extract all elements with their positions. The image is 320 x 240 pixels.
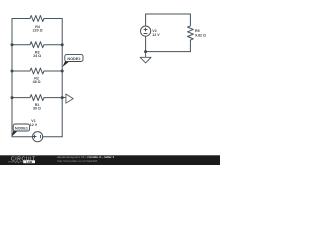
- node flag NODE2: [62, 54, 83, 67]
- svg-text:48 Ω: 48 Ω: [33, 80, 41, 84]
- wire V2 top lead: [145, 14, 147, 26]
- svg-text:12 V: 12 V: [152, 33, 160, 37]
- wire top right circuit: [146, 13, 191, 15]
- svg-text:http://circuitlab.com/c/3a9426: http://circuitlab.com/c/3a9426: [57, 159, 98, 163]
- ground: [140, 52, 151, 63]
- CircuitLab logo: [8, 157, 36, 164]
- label R4: [33, 25, 43, 33]
- resistor R5: [188, 14, 194, 52]
- wire bottom right: [43, 136, 63, 138]
- svg-text:LAB: LAB: [26, 160, 32, 164]
- svg-text:R5: R5: [195, 29, 200, 33]
- label R5: [195, 29, 206, 38]
- resistor R1: [12, 95, 62, 101]
- node junction dots: [11, 43, 148, 99]
- footer credit text: [57, 155, 115, 163]
- svg-text:9.82 Ω: 9.82 Ω: [195, 34, 206, 38]
- node flag NODE1: [12, 124, 30, 136]
- voltage source V1: [33, 132, 43, 142]
- wire V2 bottom lead: [145, 36, 147, 51]
- resistor R3: [12, 42, 62, 48]
- svg-text:220 Ω: 220 Ω: [33, 29, 43, 33]
- svg-text:12 V: 12 V: [30, 123, 38, 127]
- label V2: [152, 29, 160, 37]
- V2 plus minus symbols: [144, 28, 148, 34]
- label R2: [33, 76, 41, 84]
- label R1: [33, 103, 41, 111]
- wire bottom right circuit: [146, 51, 191, 53]
- wire bottom left: [12, 136, 33, 138]
- resistor R4: [12, 16, 62, 22]
- voltage source V2: [141, 26, 151, 36]
- wire right rail: [61, 19, 63, 137]
- svg-text:30 Ω: 30 Ω: [33, 106, 41, 110]
- resistor R2: [12, 68, 62, 74]
- label R3: [33, 51, 41, 59]
- svg-text:24 Ω: 24 Ω: [33, 54, 41, 58]
- svg-text:NODE1: NODE1: [15, 126, 28, 130]
- footer bar: [0, 155, 220, 165]
- label V1: [30, 119, 38, 127]
- V1 plus minus symbols: [33, 135, 41, 139]
- port arrow: [62, 94, 73, 103]
- svg-text:NODE2: NODE2: [67, 57, 80, 61]
- wire left rail: [11, 19, 13, 137]
